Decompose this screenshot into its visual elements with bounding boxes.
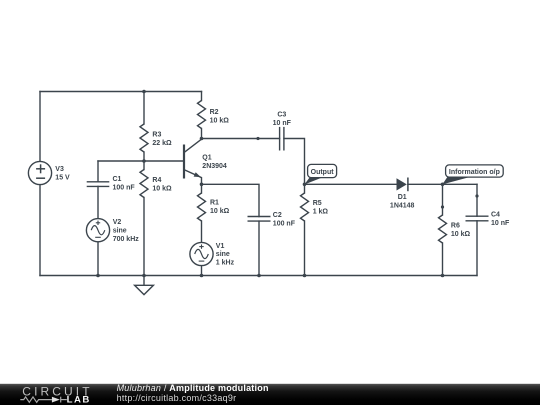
node flag Information o/p (442, 165, 503, 185)
label R3 22 kOhm (152, 132, 172, 148)
wire base row (C1 to Q1 base) (98, 160, 184, 162)
voltage source V1 sine (190, 242, 213, 265)
svg-text:R2: R2 (210, 109, 219, 116)
svg-text:10 nF: 10 nF (491, 220, 510, 227)
wire C4 bottom lead (476, 221, 478, 276)
svg-text:22 kΩ: 22 kΩ (152, 140, 172, 147)
node bottom rail V2 (96, 274, 100, 278)
label R4 10 kOhm (152, 177, 172, 193)
svg-text:10 kΩ: 10 kΩ (210, 117, 230, 124)
voltage source V2 sine (86, 219, 109, 242)
wire emitter row to C2 (202, 184, 260, 216)
footer bar (0, 384, 540, 405)
capacitor C3 (280, 127, 284, 151)
label V2 sine 700 kHz (113, 219, 140, 243)
svg-text:V2: V2 (113, 219, 122, 226)
svg-text:Q1: Q1 (202, 155, 211, 162)
svg-text:C4: C4 (491, 212, 500, 219)
wire R2 top lead (201, 92, 203, 101)
svg-text:http://circuitlab.com/c33aq9r: http://circuitlab.com/c33aq9r (117, 393, 237, 403)
capacitor C2 (248, 217, 271, 222)
wire C4 top lead (476, 196, 478, 216)
node wire joint on collector row (256, 137, 259, 140)
svg-text:C3: C3 (277, 111, 286, 118)
svg-text:R5: R5 (313, 200, 322, 207)
wire C3 to R5 column (284, 139, 305, 185)
diode D1 1N4148 (397, 178, 408, 192)
ground (135, 276, 154, 295)
wire bottom rail (40, 275, 477, 277)
wire R6 top lead (442, 207, 444, 215)
node bottom rail ground (142, 274, 146, 278)
capacitor C1 (87, 182, 110, 187)
wire collector row to C3 (202, 138, 280, 140)
resistor R4 (140, 170, 148, 198)
label R1 10 kOhm (210, 199, 230, 215)
svg-text:15 V: 15 V (55, 175, 70, 182)
svg-text:C1: C1 (113, 176, 122, 183)
wire R1 to V1 (201, 221, 203, 242)
svg-text:1N4148: 1N4148 (390, 202, 415, 209)
node bottom rail C2 (257, 274, 261, 278)
resistor R2 (198, 101, 206, 129)
wire left rail lower (V3 bottom lead) (39, 185, 41, 276)
label R2 10 kOhm (210, 109, 230, 125)
resistor R3 (140, 124, 148, 152)
resistor R1 (198, 193, 206, 221)
node flag Output (304, 164, 336, 184)
label C4 10 nF (491, 212, 510, 228)
node wire joint R6 column (441, 205, 444, 208)
svg-text:10 kΩ: 10 kΩ (210, 208, 230, 215)
node bottom rail V1 (200, 274, 204, 278)
wire C1 to V2 (97, 186, 99, 218)
svg-text:sine: sine (113, 227, 127, 234)
label V3 15 V (55, 166, 70, 182)
node information (441, 183, 445, 187)
svg-text:100 nF: 100 nF (113, 185, 136, 192)
wire C2 bottom lead (258, 221, 260, 275)
svg-text:100 nF: 100 nF (273, 221, 296, 228)
wire left rail upper (V3 top lead) (39, 92, 41, 162)
svg-text:10 kΩ: 10 kΩ (451, 231, 471, 238)
wire V1 to bottom rail (201, 266, 203, 276)
svg-text:10 kΩ: 10 kΩ (152, 185, 172, 192)
resistor R5 (301, 193, 309, 221)
label Q1 2N3904 (202, 155, 227, 171)
svg-text:700 kHz: 700 kHz (113, 236, 140, 243)
label C3 10 nF (273, 111, 292, 127)
logo resistor-diode squiggle (20, 397, 67, 403)
transistor Q1 2N3904 (184, 139, 202, 185)
svg-text:sine: sine (216, 251, 230, 258)
svg-text:V1: V1 (216, 243, 225, 250)
label D1 1N4148 (390, 194, 415, 210)
svg-text:V3: V3 (55, 166, 64, 173)
wire D1 to info node (408, 183, 443, 185)
wire R2 bottom lead (201, 129, 203, 139)
wire R1 top lead (201, 184, 203, 193)
svg-text:LAB: LAB (67, 395, 91, 405)
svg-text:R1: R1 (210, 199, 219, 206)
voltage source V3 15V (28, 161, 51, 184)
svg-text:R3: R3 (152, 132, 161, 139)
wire output row to D1 (305, 183, 397, 185)
svg-text:R4: R4 (152, 177, 161, 184)
label C2 100 nF (273, 212, 296, 228)
node output (303, 183, 307, 187)
wire R5 top lead (304, 184, 306, 193)
svg-text:2N3904: 2N3904 (202, 163, 227, 170)
node top rail / R3 (142, 90, 146, 94)
node wire joint C4 column (475, 194, 478, 197)
node base row / R3-R4 (142, 159, 146, 163)
svg-text:R6: R6 (451, 223, 460, 230)
wire C4 upper segment (476, 184, 478, 196)
node emitter (200, 183, 204, 187)
svg-text:Output: Output (311, 169, 335, 176)
node bottom rail R5 (303, 274, 307, 278)
resistor R6 (439, 215, 447, 243)
wire R4 bottom lead (143, 198, 145, 276)
wire info node to C4 column (443, 183, 478, 185)
svg-text:Mulubrhan / Amplitude modulati: Mulubrhan / Amplitude modulation (117, 383, 269, 393)
wire V2 to bottom rail (97, 242, 99, 276)
wire R5 bottom lead (304, 221, 306, 276)
svg-text:D1: D1 (398, 194, 407, 201)
wire R4 top lead (143, 161, 145, 170)
label R5 1 kOhm (313, 200, 329, 216)
svg-text:1 kHz: 1 kHz (216, 260, 235, 267)
svg-text:10 nF: 10 nF (273, 120, 292, 127)
label V1 sine 1 kHz (216, 243, 235, 267)
capacitor C4 (466, 216, 489, 221)
label C1 100 nF (113, 176, 136, 192)
svg-text:C2: C2 (273, 212, 282, 219)
wire R6 bottom lead (442, 243, 444, 276)
wire R3 top lead (143, 92, 145, 125)
wire info node down to R6 (442, 184, 444, 207)
svg-text:1 kΩ: 1 kΩ (313, 209, 329, 216)
label R6 10 kOhm (451, 223, 471, 239)
node collector (200, 137, 204, 141)
svg-text:Information o/p: Information o/p (449, 169, 500, 176)
wire C1 top lead (97, 161, 99, 182)
node bottom rail R6 (441, 274, 445, 278)
wire top rail (40, 91, 202, 93)
wire R3 bottom lead (143, 152, 145, 161)
